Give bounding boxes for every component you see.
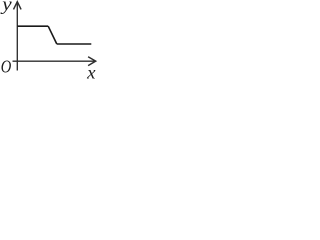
svg-text:x: x [86, 63, 95, 83]
curve: lower horizontal segment [57, 43, 92, 45]
y-axis arrowhead [14, 2, 22, 10]
svg-text:O: O [1, 56, 12, 77]
svg-text:y: y [0, 0, 12, 14]
x-axis arrowhead [88, 57, 96, 66]
curve: downward slant segment [48, 26, 57, 44]
y-axis [16, 3, 18, 71]
curve: upper horizontal segment [17, 25, 48, 27]
x-axis [13, 60, 95, 62]
